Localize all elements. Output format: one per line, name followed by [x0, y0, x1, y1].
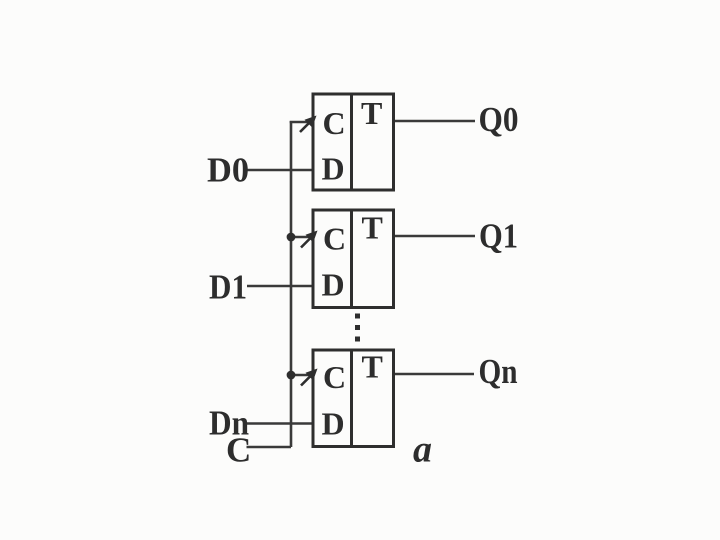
ellipsis dots between U2 and U3 [355, 314, 360, 342]
flip-flop U3 body [313, 350, 394, 447]
flip-flop U2 body [313, 210, 394, 308]
junction node on bus at U2 C branch [287, 233, 296, 242]
wire C branch to FF2 clock input [291, 236, 312, 239]
wire C branch to FF1 clock input [290, 121, 312, 124]
junction node on bus at U3 C branch [287, 371, 296, 380]
svg-text:D0: D0 [207, 151, 249, 190]
svg-text:D: D [322, 267, 345, 303]
svg-text:C: C [323, 359, 346, 395]
svg-text:D: D [322, 406, 345, 442]
svg-text:D1: D1 [209, 268, 247, 307]
svg-text:C: C [323, 221, 346, 257]
svg-text:T: T [362, 349, 383, 385]
flip-flop U1 body [313, 94, 394, 190]
wire C clock feed bottom [247, 446, 292, 449]
wire C branch to FF3 clock input [291, 374, 312, 377]
svg-text:T: T [362, 210, 383, 246]
wire Q1 output [394, 235, 475, 238]
dynamic-input arrow into U1 C [300, 116, 317, 133]
svg-text:D: D [322, 151, 345, 187]
wire Qn output [394, 373, 474, 376]
svg-text:Q1: Q1 [479, 217, 518, 256]
svg-text:T: T [361, 95, 382, 131]
wire Dn input [246, 422, 313, 425]
wire Q0 output [394, 120, 475, 123]
svg-text:C: C [323, 105, 346, 141]
wire D0 input [246, 169, 313, 172]
wire D1 input [247, 285, 313, 288]
dynamic-input arrow into U3 C [301, 369, 318, 386]
svg-text:C: C [226, 431, 251, 470]
dynamic-input arrow into U2 C [301, 231, 318, 248]
svg-text:Qn: Qn [479, 352, 518, 391]
wire clock bus vertical [290, 121, 293, 447]
svg-text:Q0: Q0 [479, 100, 519, 139]
svg-text:a: a [413, 429, 432, 471]
